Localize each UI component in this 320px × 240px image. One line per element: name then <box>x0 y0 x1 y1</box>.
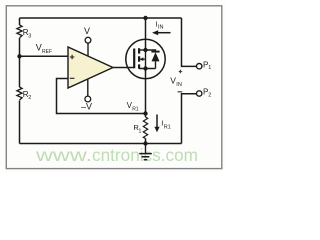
node drain junction dot <box>143 16 147 20</box>
terminal circle +V <box>85 37 91 43</box>
svg-text:2: 2 <box>28 95 31 101</box>
wire opamp -V supply <box>87 79 89 96</box>
transistor Q1 MOSFET circle <box>126 39 165 78</box>
svg-text:–V: –V <box>81 102 92 112</box>
wire opamp output to mosfet gate <box>113 67 134 69</box>
terminal circle P1 <box>197 63 202 68</box>
svg-text:2: 2 <box>208 92 211 98</box>
current arrow IR1 <box>156 115 158 129</box>
label Vin plus <box>179 70 183 74</box>
terminal circle P2 <box>197 91 202 96</box>
svg-text:IN: IN <box>158 25 164 31</box>
Q1 substrate arrow (points to gate) <box>140 58 146 60</box>
resistor R3 zigzag <box>17 25 22 38</box>
wire Vref node down to R2 <box>19 56 21 87</box>
wire left column top <box>19 18 21 25</box>
Q1 gate bar <box>133 49 135 69</box>
Q1 source internal column <box>145 50 147 69</box>
Q1 source jog <box>139 68 156 70</box>
wire opamp - input feedback <box>57 79 146 114</box>
svg-text:3: 3 <box>28 34 31 40</box>
svg-text:www.: www. <box>35 145 92 165</box>
node Vref junction dot <box>17 54 21 58</box>
op-amp - input sign <box>70 77 75 79</box>
svg-text:REF: REF <box>42 49 52 55</box>
Q1 body diode <box>146 50 156 69</box>
wire opamp +V supply <box>87 43 89 56</box>
current arrow IIN <box>157 32 171 34</box>
op-amp + input sign <box>70 55 75 60</box>
node bottom-rail junction dot <box>143 141 147 145</box>
svg-text:R1: R1 <box>164 124 171 130</box>
svg-text:IN: IN <box>176 82 182 88</box>
svg-text:1: 1 <box>208 65 211 71</box>
Q1 channel segments <box>138 48 140 69</box>
wire R3 to Vref node <box>19 38 21 56</box>
wire bottom rail <box>20 143 182 145</box>
wire P2 to bottom rail <box>182 94 197 144</box>
svg-text:R1: R1 <box>132 107 139 113</box>
label Vin minus <box>178 91 183 93</box>
wire R2 to bottom rail <box>19 101 21 144</box>
node VR1 junction dot <box>143 111 147 115</box>
terminal circle -V <box>85 96 91 102</box>
wire R1 to bottom rail <box>145 139 147 144</box>
op-amp U1 triangle <box>68 47 113 88</box>
wire top rail <box>20 17 182 19</box>
wire right column to P1 <box>182 18 197 66</box>
border frame <box>6 6 222 169</box>
wire mosfet drain column <box>145 18 147 50</box>
ground <box>145 144 147 154</box>
svg-text:V: V <box>84 26 90 36</box>
Q1 drain jog <box>139 49 146 51</box>
resistor R1 zigzag <box>143 117 147 138</box>
svg-text:V: V <box>36 43 42 53</box>
resistor R2 zigzag <box>17 87 22 100</box>
Q1 internal junction dots <box>143 48 147 52</box>
wire mosfet source column <box>145 69 147 118</box>
wire Vref node to opamp + input <box>20 55 69 57</box>
svg-text:1: 1 <box>138 128 141 134</box>
